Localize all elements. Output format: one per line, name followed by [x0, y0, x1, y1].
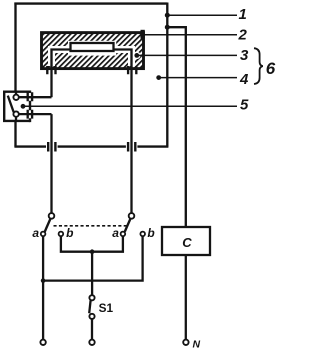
svg-text:a: a: [112, 226, 119, 240]
right contact a: [121, 232, 126, 237]
wire heater-left to thermostat: [50, 70, 52, 97]
wire a-left to b-right: [43, 236, 143, 281]
heater lead wires halo: [52, 50, 132, 67]
leader line 4: [159, 77, 237, 79]
node dot 3 in heater: [134, 53, 139, 58]
wire C to N: [185, 255, 187, 340]
terminal left: [40, 340, 45, 345]
svg-text:C: C: [182, 235, 192, 250]
wire supply elbow to C: [167, 27, 186, 227]
svg-text:S1: S1: [99, 301, 114, 315]
left switch arm: [45, 219, 51, 232]
node dot 2 supply junction: [165, 25, 170, 30]
thermostat box right wall segments: [29, 91, 31, 123]
switch S1 arm: [89, 300, 90, 313]
svg-text:3: 3: [240, 47, 249, 64]
junction dot left-a: [41, 278, 46, 283]
housing bottom wall segment middle: [58, 145, 126, 147]
svg-text:1: 1: [239, 6, 247, 23]
terminal N: [183, 340, 188, 345]
junction dot S1 branch: [90, 249, 95, 254]
right switch arm: [125, 219, 131, 232]
leader line 3: [137, 54, 237, 56]
right contact b: [140, 232, 145, 237]
svg-text:b: b: [66, 226, 73, 240]
terminal middle: [89, 340, 94, 345]
bushing plates right (housing wall): [128, 142, 135, 152]
housing bottom wall segment left: [14, 145, 46, 147]
component C box: [162, 227, 210, 255]
thermostat feed stubs: [15, 92, 17, 121]
thermostat lower wire: [19, 113, 51, 115]
thermostat bushing plates lower: [28, 110, 32, 119]
svg-text:N: N: [193, 339, 201, 350]
thermostat switch arm: [8, 96, 14, 113]
mechanical link dashed line: [54, 225, 128, 227]
left contact a: [41, 232, 46, 237]
wire left-a down: [42, 236, 44, 340]
wire thermostat to left switch: [50, 114, 52, 213]
heater lead left: [52, 50, 71, 71]
switch S1 top contact: [89, 295, 94, 300]
heater element halo: [68, 41, 116, 56]
left switch pivot: [49, 213, 55, 219]
svg-text:6: 6: [266, 59, 276, 78]
switch S1 bottom contact: [89, 314, 94, 319]
wire to S1: [91, 252, 93, 296]
thermostat bushing plates upper: [28, 92, 32, 101]
right switch pivot: [129, 213, 135, 219]
thermostat upper wire: [19, 96, 51, 98]
leader line 5: [23, 105, 237, 107]
heater box 6 (hatched): [42, 33, 144, 69]
wire S1 down: [91, 319, 93, 340]
heater bushing bars right: [128, 66, 136, 74]
node dot 1 on housing wall: [165, 13, 170, 18]
thermostat box 5: [4, 92, 30, 121]
bushing plates left (housing wall): [48, 142, 55, 152]
housing left wall lower segment: [14, 121, 16, 147]
heater bushing bars left: [47, 66, 55, 74]
node dot 3 halo: [133, 52, 140, 59]
wire heater-right to right switch: [130, 70, 132, 214]
svg-text:2: 2: [238, 27, 248, 44]
housing bottom wall segment right: [137, 145, 168, 147]
leader line 2: [142, 34, 237, 36]
svg-text:b: b: [147, 226, 154, 240]
node dot label5: [21, 104, 26, 109]
left contact b: [59, 232, 64, 237]
svg-text:a: a: [32, 226, 39, 240]
node dot 4 inside housing: [156, 75, 161, 80]
housing top wall: [14, 2, 167, 4]
housing left wall upper segment: [14, 3, 16, 92]
brace 6: [254, 48, 263, 84]
leader 2 attachment blob: [141, 30, 145, 39]
heater lead right: [114, 50, 132, 71]
heating element 3: [71, 43, 114, 51]
thermostat upper contact: [13, 95, 18, 100]
leader line 1: [167, 14, 237, 16]
housing right wall: [166, 3, 168, 147]
thermostat lower contact: [13, 111, 18, 116]
svg-text:4: 4: [239, 71, 249, 88]
svg-text:5: 5: [240, 97, 249, 114]
wire left-b to right-a: [61, 236, 123, 252]
